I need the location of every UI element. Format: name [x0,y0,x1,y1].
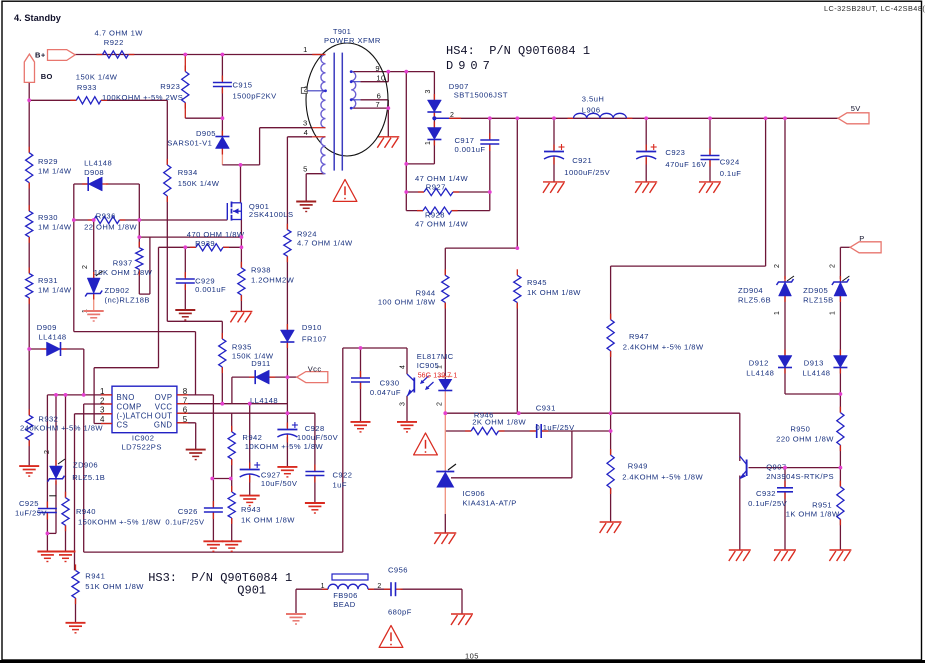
svg-text:C923: C923 [665,148,685,157]
resistor R947 [610,314,612,320]
svg-text:D908: D908 [84,168,104,177]
svg-text:0.001uF: 0.001uF [195,285,226,294]
svg-text:1M 1/4W: 1M 1/4W [38,167,72,176]
resistor R945 [516,269,518,275]
wire R939 left [159,246,186,248]
junction node (406.3,192) [404,190,408,194]
svg-text:10: 10 [376,74,385,83]
svg-text:R935: R935 [232,342,252,351]
wire D911 left link [232,376,255,378]
wire pin4 to R924 [286,137,288,230]
diode D912 [784,350,786,356]
wire R942 top lead [231,413,233,432]
ground C921 [543,181,565,183]
diode D910 [286,324,288,330]
wire C923 to ground [645,158,647,182]
capacitor C926 [212,501,214,508]
svg-text:4.7 OHM 1/4W: 4.7 OHM 1/4W [297,238,353,247]
zener ZD906 [55,460,57,466]
svg-text:2SK4100LS: 2SK4100LS [249,210,294,219]
ground C956 [451,613,473,615]
svg-text:10KOHM +-5% 1/8W: 10KOHM +-5% 1/8W [245,442,324,451]
svg-text:0.1uF/25V: 0.1uF/25V [165,518,205,527]
wire R940 top lead [65,395,67,498]
zener ZD902 [93,272,95,278]
svg-text:4.7 OHM 1W: 4.7 OHM 1W [95,29,144,38]
junction node (610.6,413.2) [609,411,613,415]
wire R938 to ground [240,295,242,311]
ground C925 [37,551,57,553]
wire D907 bottom lead [433,139,435,164]
wire right feed drop [765,118,767,266]
resistor R938 [240,262,242,268]
wire D908 right lead [106,183,139,185]
svg-text:10uF/50V: 10uF/50V [261,479,298,488]
zener ZD905 [839,276,841,282]
svg-text:9: 9 [375,64,380,73]
svg-text:COMP: COMP [117,402,142,411]
capacitor C930 [360,371,362,378]
svg-text:4: 4 [400,365,407,369]
svg-text:0.1uF/25V: 0.1uF/25V [748,499,788,508]
svg-text:10K OHM 1/8W: 10K OHM 1/8W [94,268,153,277]
junction node (249.7,403.7) [248,402,252,406]
zener ZD904 [784,276,786,282]
svg-text:2.4KOHM +-5% 1/8W: 2.4KOHM +-5% 1/8W [623,342,704,351]
svg-text:EL817MC: EL817MC [417,352,454,361]
svg-text:C930: C930 [380,379,400,388]
svg-text:ZD902: ZD902 [105,286,130,295]
ground FB906 [286,613,306,615]
resistor R936 [88,219,94,221]
svg-text:680pF: 680pF [388,608,412,617]
wire R934 top lead [166,100,168,165]
resistor R930 [28,205,30,211]
ground C927 [240,495,260,497]
capacitor C921 [553,145,555,152]
wire OUT long rail [445,412,740,414]
wire FB906 left drop [295,589,297,614]
svg-text:R922: R922 [104,38,124,47]
junction node (222.3,403.7) [220,402,224,406]
svg-text:1000uF/25V: 1000uF/25V [564,168,610,177]
junction node (241.4,247.3) [240,245,244,249]
svg-text:R947: R947 [629,332,649,341]
wire C931 right lead [541,430,609,432]
junction node (185.3,54.5) [183,53,187,57]
connector 5V [838,113,869,124]
svg-text:R927: R927 [426,183,446,192]
svg-text:R923: R923 [160,82,180,91]
junction node (610.6,431) [609,429,613,433]
wire T901 pin7 [353,107,389,109]
svg-text:2: 2 [437,402,444,406]
junction node (388.3,71.6) [386,70,390,74]
svg-text:R930: R930 [38,213,58,222]
junction node (785,118.3) [783,116,787,120]
svg-text:LL4148: LL4148 [250,396,278,405]
capacitor C917 [489,133,491,140]
wire ZD904-D912 link [784,296,786,356]
svg-text:R931: R931 [38,276,58,285]
wire P arrow stub [840,246,850,248]
svg-text:R945: R945 [527,278,547,287]
svg-text:RLZ5.6B: RLZ5.6B [738,295,771,304]
ground C923 [635,181,657,183]
svg-text:R937: R937 [113,258,133,267]
wire R935 top lead [221,321,223,339]
wire pin7 to ground [387,108,389,137]
wire CS riser [158,247,160,367]
junction node (29.2,100.3) [27,98,31,102]
wire R939 left lead [185,246,196,248]
junction node (65.5,394.9) [64,393,68,397]
ground C930 [351,421,371,423]
wire T901 pin6 [360,99,388,101]
wire R923 bottom lead [184,103,186,119]
resistor R949 [610,449,612,455]
junction node (445.3,413.2) [443,411,447,415]
svg-text:R951: R951 [812,500,832,509]
wire R946-C931 link [499,430,537,432]
wire C915 bottom lead [221,89,223,118]
resistor R922 [97,54,103,56]
svg-text:RLZ5.1B: RLZ5.1B [72,473,105,482]
svg-text:1: 1 [774,311,781,315]
resistor R927 [418,191,424,193]
connector Vcc [297,372,328,383]
svg-text:C915: C915 [233,81,253,90]
wire C926 top lead [212,479,214,507]
wire ZD906-C925 link [47,532,56,534]
wire ZD905 top lead [839,247,841,279]
svg-text:L906: L906 [582,106,601,115]
ground C929 [175,309,195,311]
junction node (139.3,220) [137,218,141,222]
svg-text:2: 2 [829,264,836,268]
svg-text:D911: D911 [251,359,270,368]
junction node (240.5,164.9) [239,163,243,167]
junction node (765.6,118.3) [764,116,768,120]
wire C956 right [401,588,463,590]
wire R945 feed drop [516,118,518,248]
svg-text:C917: C917 [455,136,475,145]
wire R936 to Q901 gate [119,219,227,221]
wire ZD904 top lead [784,118,786,279]
resistor R944 [444,269,446,275]
capacitor C929 [184,272,186,279]
ground R940 ZD906 [56,551,76,553]
capacitor C928 [286,423,288,430]
svg-text:Vcc: Vcc [308,365,322,374]
svg-text:HS3: P/N Q90T6084 1: HS3: P/N Q90T6084 1 [148,571,292,585]
warning triangle T901 [333,180,357,202]
wire D912-D913 bottom link [785,393,840,395]
wire R950-R951 link [839,445,841,487]
wire R937 top lead [138,220,140,248]
ground R941 [66,622,86,624]
diode D913 [839,350,841,356]
wire R927 left lead [406,191,424,193]
wire R943 to ground [231,518,233,541]
ground C922 [305,502,325,504]
optocoupler IC905 EL817MC [407,374,452,396]
ground R938 [230,310,252,312]
shunt regulator IC906 KIA431A [436,464,456,488]
svg-text:240KOHM +-5% 1/8W: 240KOHM +-5% 1/8W [20,423,103,432]
svg-text:56G 139 7 1: 56G 139 7 1 [418,373,458,380]
wire D913 bottom lead [839,367,841,395]
ground T901 pin5 [296,201,316,203]
junction node (47.4,533.4) [46,532,50,536]
svg-text:C931: C931 [536,404,556,413]
junction node (287.4,413.2) [286,411,290,415]
ferrite bead FB906 [322,574,374,589]
svg-text:R932: R932 [38,414,58,423]
wire C922 to ground [314,477,316,504]
wire T901 pin10 [360,81,388,83]
ground ZD902 [84,310,104,312]
svg-text:VCC: VCC [155,402,173,411]
wire Q907 base link [749,467,841,469]
junction node (222.4,118.2) [221,116,225,120]
wire B+ top rail [75,54,324,56]
resistor R940 [65,492,67,498]
resistor R923 [184,66,186,72]
capacitor C924 [709,149,711,156]
resistor R937 [138,242,140,248]
resistor R932 [28,409,30,415]
wire CS to pin4 [93,368,95,424]
wire IC905 emitter to ground [406,396,408,422]
wire FB906-C956 link [368,588,391,590]
diode D908 [82,183,88,185]
junction node (230.8,478.5) [229,477,233,481]
capacitor C915 [221,76,223,83]
junction node (489.8,118.3) [488,116,492,120]
svg-text:P: P [859,234,864,243]
wire R950 top lead [839,394,841,413]
svg-text:470uF 16V: 470uF 16V [665,160,707,169]
svg-text:C924: C924 [720,158,740,167]
ground R949 [600,521,622,523]
svg-text:150K 1/4W: 150K 1/4W [178,179,220,188]
svg-text:D905: D905 [196,129,216,138]
wire R932 to ground [28,440,30,466]
junction node (222.4,54.5) [221,53,225,57]
transistor Q907 2N3904 [740,456,747,479]
junction node (29.2,349) [27,347,31,351]
junction node (646.2,118.3) [644,116,648,120]
wire C930 top lead [360,348,362,378]
svg-text:4: 4 [304,128,309,137]
svg-text:C921: C921 [572,156,592,165]
svg-text:D910: D910 [302,323,322,332]
svg-text:5: 5 [303,165,308,174]
wire Vcc to C928 [286,377,288,428]
junction node (517.3,248.1) [515,246,519,250]
wire D909 to pin1 rail [83,349,85,395]
svg-text:R934: R934 [178,168,198,177]
svg-text:IC905: IC905 [417,361,440,370]
ground T901 secondary [377,136,399,138]
junction node (710,118.3) [708,116,712,120]
svg-text:R938: R938 [251,266,271,275]
svg-text:R949: R949 [628,462,648,471]
svg-text:R933: R933 [77,83,97,92]
resistor R931 [28,268,30,274]
connector P [850,242,881,253]
ground C932 [774,549,796,551]
diode D911 [249,376,255,378]
wire R935 bottom lead [221,367,223,404]
wire C917 top lead [489,118,491,140]
svg-text:D913: D913 [804,359,824,368]
wire C930 rail drop [342,348,344,552]
wire FB906 left [296,588,328,590]
inductor L906 [568,117,574,119]
svg-text:FR107: FR107 [302,335,327,344]
svg-text:220 OHM 1/8W: 220 OHM 1/8W [776,435,834,444]
junction node (73.8,220) [72,218,76,222]
wire T901 pin4 [287,136,312,138]
wire pin4 CS stub [94,423,112,425]
wire C927 top lead [249,404,251,468]
svg-text:4: 4 [100,415,105,424]
ground IC906 [434,532,456,534]
wire C921 top lead [553,118,555,150]
wire R949 to ground [610,488,612,522]
svg-text:C932: C932 [756,489,776,498]
svg-text:C926: C926 [178,507,198,516]
svg-text:ZD904: ZD904 [738,286,763,295]
wire COMP drop [83,404,85,552]
wire ZD906 bottom [55,481,57,533]
wire C930 to ground [360,383,362,422]
svg-text:LL4148: LL4148 [39,333,67,342]
junction node (489.8,192) [488,190,492,194]
svg-text:C928: C928 [305,424,325,433]
wire pin3 riser [259,128,261,165]
svg-text:OVP: OVP [155,393,173,402]
svg-text:R942: R942 [242,433,262,442]
svg-text:2.4KOHM +-5% 1/8W: 2.4KOHM +-5% 1/8W [622,473,703,482]
svg-text:1500pF2KV: 1500pF2KV [233,92,278,101]
wire C956 right drop [461,589,463,614]
svg-text:R950: R950 [790,425,810,434]
svg-text:ZD905: ZD905 [803,286,828,295]
wire D908 right riser [138,184,140,220]
resistor R939 [190,246,196,248]
svg-text:0.1uF/25V: 0.1uF/25V [536,423,576,432]
capacitor C931 [530,430,537,432]
wire C929 top lead [184,247,186,277]
ground R951 [829,549,851,551]
svg-text:LC-32SB28UT, LC-42SB48(U: LC-32SB28UT, LC-42SB48(U [824,4,925,13]
T901 primary winding pins 1-3 [321,55,326,128]
resistor R951 [839,481,841,487]
wire R923-C915 bottom link [185,117,222,119]
resistor R950 [839,407,841,413]
wire R947 top run [611,265,766,267]
svg-text:Q901: Q901 [237,584,266,598]
svg-text:1: 1 [425,141,432,145]
connector BO [24,54,34,82]
wire D908 node to OVP run [73,220,75,332]
wire COMP bottom run [84,551,343,553]
svg-text:0.047uF: 0.047uF [370,388,401,397]
resistor R929 [28,147,30,153]
wire Q907 collector [739,413,741,461]
svg-text:IC902: IC902 [132,434,155,443]
svg-text:3: 3 [400,402,407,406]
junction node (840.4,467.6) [839,466,843,470]
svg-text:1K OHM 1/8W: 1K OHM 1/8W [241,516,295,525]
wire D907 top lead [433,72,435,100]
wire C924 to ground [709,160,711,182]
resistor R946 [465,430,471,432]
wire D907 mid link [433,111,435,128]
wire C927 to ground [249,476,251,496]
warning triangle IC906 [414,433,438,455]
svg-text:1M 1/4W: 1M 1/4W [38,222,72,231]
wire R933 left [29,99,76,101]
wire IC906 ref run [451,477,572,479]
diode D909 [41,348,47,350]
wire R944 top lead [444,248,446,275]
svg-text:22 OHM 1/8W: 22 OHM 1/8W [84,222,137,231]
wire D905 cathode lead [221,118,223,136]
wire R943 top lead [231,479,233,493]
svg-text:HS4: P/N Q90T6084 1: HS4: P/N Q90T6084 1 [446,44,590,58]
svg-text:POWER XFMR: POWER XFMR [324,36,381,45]
wire LED cathode [444,391,446,414]
wire R945 bottom lead [516,303,518,414]
wire rail R930-R931 [28,237,30,274]
capacitor C956 [384,588,391,590]
wire ZD902 top lead [93,220,95,278]
wire R934 bottom to R935 link [166,196,168,321]
wire C921 to ground [553,158,555,182]
junction node (241.4,237.1) [240,235,244,239]
wire D905 anode lead [221,148,223,165]
junction node (785,467.6) [783,466,787,470]
wire T901 pin5 [306,173,324,175]
svg-text:1M 1/4W: 1M 1/4W [38,286,72,295]
wire T901 pin3 [260,127,313,129]
wire rail D909-R932 [28,349,30,415]
svg-text:T901: T901 [333,27,351,36]
wire R934-R935 link [167,320,222,322]
wire R924 to D910 [286,256,288,330]
svg-text:1K OHM 1/8W: 1K OHM 1/8W [786,510,840,519]
ground R943 [222,540,242,542]
svg-text:(nc)RLZ18B: (nc)RLZ18B [105,296,150,305]
wire R951 to ground [839,519,841,550]
wire pin8 OVP stub [177,394,214,396]
svg-text:1uF: 1uF [333,481,347,490]
svg-text:OUT: OUT [155,412,173,421]
wire upper CS link [139,236,241,238]
wire C929 to ground [184,285,186,310]
svg-text:1: 1 [829,311,836,315]
wire R933 to R934 [101,99,167,101]
wire pin6 OUT rail [177,412,315,414]
wire IC906 anode to ground [444,514,446,533]
svg-text:(-)LATCH: (-)LATCH [117,412,153,421]
junction node (406.3,71.6) [404,70,408,74]
wire GND drop [195,423,197,450]
